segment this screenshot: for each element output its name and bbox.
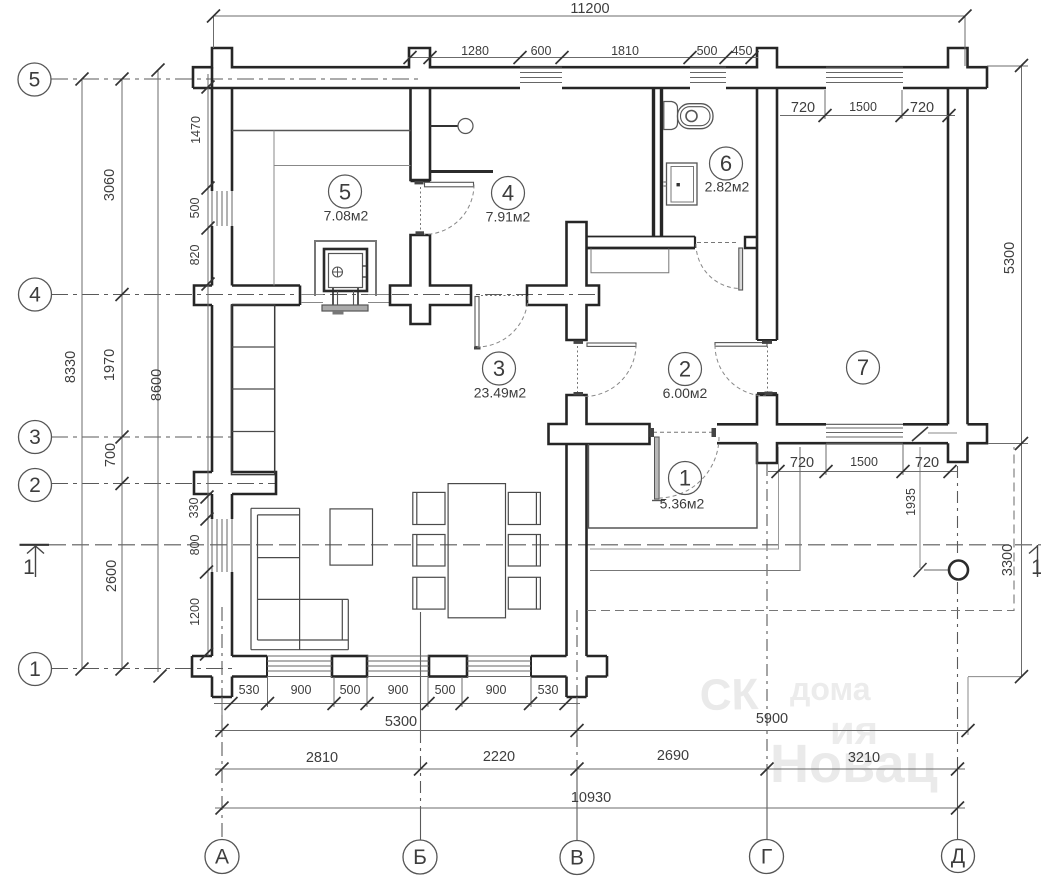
door D3 room 3 : leaf — [475, 297, 479, 347]
door D4 projection dotted — [577, 346, 579, 392]
svg-text:530: 530 — [538, 683, 559, 697]
column circle symbol — [949, 561, 968, 580]
log cross at axis B x axis 4 — [411, 88, 431, 180]
door D1 leaf — [425, 182, 474, 187]
wall axis V below axis 3 down to axis 1 — [565, 444, 568, 656]
axis circle 5 — [18, 63, 51, 96]
top wall band outline (axis 5) with log corners — [193, 48, 987, 88]
axis D vertical line — [957, 466, 959, 558]
svg-text:5: 5 — [29, 69, 41, 92]
svg-text:3300: 3300 — [1000, 544, 1016, 576]
svg-text:6.00м2: 6.00м2 — [663, 385, 708, 401]
svg-text:500: 500 — [188, 198, 202, 219]
svg-text:1280: 1280 — [461, 44, 489, 58]
stove opening jamb lines — [301, 294, 323, 296]
window 500 left wall — [211, 191, 213, 226]
axis 4 line — [51, 294, 598, 296]
door D6 swing arc — [659, 437, 719, 498]
svg-text:дома: дома — [790, 671, 871, 707]
svg-text:10930: 10930 — [571, 790, 611, 806]
toilet tank — [664, 102, 678, 130]
axis circle D — [942, 840, 975, 873]
log cross at axis V x axis 4 — [527, 222, 599, 340]
axis 2 line — [51, 483, 276, 485]
stove handle — [333, 267, 343, 277]
door D6 entrance : opening dashes — [653, 431, 712, 433]
door D3 swing arc — [477, 296, 528, 347]
svg-text:7.08м2: 7.08м2 — [324, 208, 369, 224]
door D4 swing arc — [584, 345, 636, 397]
hall bottom wall (axis 3) left segment with V-cross — [549, 395, 650, 444]
axis 4 interior wall segment from wall A to stove — [232, 284, 300, 287]
svg-text:720: 720 — [915, 455, 939, 471]
dining table — [448, 484, 505, 618]
wardrobe along left wall — [232, 305, 275, 475]
svg-text:5.36м2: 5.36м2 — [660, 496, 705, 512]
svg-text:720: 720 — [791, 100, 815, 116]
corner sofa — [250, 508, 252, 649]
partition under bathroom (room 6 bottom) — [587, 236, 696, 238]
svg-text:4: 4 — [29, 284, 41, 307]
door D2 bathroom : opening dashes — [697, 242, 738, 244]
side notches on firebox — [362, 265, 366, 267]
svg-text:2600: 2600 — [104, 560, 120, 592]
svg-text:330: 330 — [187, 498, 201, 519]
dim 10930 row — [215, 807, 965, 809]
door D2 leaf — [739, 248, 743, 290]
door D5 hall right : leaf — [715, 343, 767, 347]
svg-text:1200: 1200 — [188, 598, 202, 626]
svg-text:900: 900 — [388, 683, 409, 697]
axis circle 3 — [19, 421, 52, 454]
svg-text:5900: 5900 — [756, 711, 788, 727]
window 1500 top right wing — [826, 72, 903, 74]
svg-text:2.82м2: 2.82м2 — [705, 179, 750, 195]
axis circle G — [750, 840, 784, 874]
svg-text:7.91м2: 7.91м2 — [486, 209, 531, 225]
bottom wall block 1 — [332, 656, 367, 677]
svg-text:800: 800 — [188, 535, 202, 556]
axis 3 line — [51, 436, 232, 438]
stove hearth plate — [322, 305, 368, 311]
door D4 hall left : leaf — [587, 343, 636, 346]
downpipe dim 1935 line — [919, 447, 921, 568]
svg-text:1470: 1470 — [189, 116, 203, 144]
axis A vertical line — [221, 607, 223, 839]
svg-text:500: 500 — [697, 44, 718, 58]
dim 720/1500/720 top — [780, 115, 955, 117]
axis 1 line — [51, 668, 235, 670]
stove firebox — [324, 249, 367, 291]
room 5 circle — [329, 175, 362, 208]
sink — [667, 163, 698, 205]
section arrow left — [35, 545, 37, 577]
faint watermark — [699, 670, 937, 794]
svg-text:2220: 2220 — [483, 749, 515, 765]
svg-text:11200: 11200 — [570, 1, 609, 17]
porch step inner — [590, 447, 779, 549]
room 1 circle — [669, 462, 702, 495]
wall axis G (room6|room7) — [756, 88, 759, 340]
chair R3 — [508, 577, 540, 609]
section arrow right — [1037, 545, 1039, 577]
room 3 circle — [483, 352, 516, 385]
room labels — [324, 147, 880, 512]
svg-text:720: 720 — [910, 100, 934, 116]
door D1 jamb caps — [415, 181, 424, 184]
svg-text:6: 6 — [720, 151, 732, 176]
svg-text:820: 820 — [188, 245, 202, 266]
porch step outer — [590, 447, 800, 571]
bottom wall right arm to V wall — [531, 655, 567, 658]
room 1 tambour outline — [589, 444, 758, 528]
svg-text:3: 3 — [493, 356, 505, 381]
window 900 bottom a — [267, 655, 332, 657]
axis 4 crossing stub left of wall A — [194, 286, 212, 306]
axis B vertical line — [420, 612, 422, 731]
tick inside right wing bottom wall — [912, 427, 928, 441]
svg-text:530: 530 — [239, 683, 260, 697]
axis circle B — [403, 840, 437, 874]
chair L1 — [413, 492, 445, 524]
bottom dim row 530/900/500/900/500/900/530 — [214, 703, 580, 705]
svg-text:500: 500 — [340, 683, 361, 697]
svg-text:В: В — [570, 847, 584, 870]
axis circle 1 — [19, 653, 52, 686]
window 800 left wall — [211, 519, 213, 572]
svg-text:700: 700 — [103, 443, 119, 467]
left dim line 8600 — [157, 70, 159, 672]
svg-text:СК: СК — [699, 670, 759, 720]
door D1 rooms 5-4 : lintel — [430, 170, 493, 173]
svg-text:23.49м2: 23.49м2 — [474, 385, 527, 401]
svg-text:1500: 1500 — [849, 100, 877, 114]
dim 11200 line — [213, 15, 965, 17]
svg-text:1: 1 — [1031, 556, 1041, 579]
door D3 opening dashes — [481, 295, 523, 297]
terrace dashed outline — [587, 447, 1014, 611]
room 7 circle — [847, 351, 880, 384]
svg-text:5300: 5300 — [1002, 242, 1018, 274]
window 500 in top wall — [690, 72, 726, 74]
room 6 circle — [710, 147, 743, 180]
svg-text:3210: 3210 — [848, 750, 880, 766]
axis circle 4 — [19, 278, 52, 311]
chair R2 — [508, 535, 540, 567]
svg-text:720: 720 — [790, 455, 814, 471]
svg-text:5: 5 — [339, 180, 351, 205]
door D1 projection dotted — [420, 187, 422, 232]
stove outer shield — [315, 241, 376, 296]
window 1500 right wing bottom — [826, 427, 903, 429]
axis V vertical line — [576, 610, 578, 769]
svg-text:2690: 2690 — [657, 748, 689, 764]
svg-text:4: 4 — [502, 181, 514, 206]
svg-text:600: 600 — [531, 44, 552, 58]
axis circle V — [560, 841, 594, 875]
dim 720/1500/720 bottom wing — [768, 471, 957, 473]
room5 closet lines — [232, 130, 411, 132]
svg-text:Д: Д — [951, 845, 965, 868]
axis 5 line — [51, 78, 420, 80]
chair R1 — [508, 492, 540, 524]
svg-text:450: 450 — [732, 44, 753, 58]
svg-text:1: 1 — [23, 556, 35, 579]
right wing bottom wall (axis 3) with log crossings — [717, 395, 826, 424]
door D5 swing arc — [715, 345, 766, 396]
bottom wall (axis 1) left arm with A-cross — [192, 656, 212, 677]
window 900 bottom b — [367, 655, 429, 657]
door D1 swing arc — [424, 185, 474, 235]
svg-text:3: 3 — [29, 426, 41, 449]
coffee table — [330, 509, 373, 565]
wall axis D right exterior — [947, 88, 950, 424]
wall lamp symbol room 4 — [430, 125, 458, 127]
dim 5300/5900 row — [215, 730, 968, 732]
svg-text:2: 2 — [679, 357, 691, 382]
chair L3 — [413, 577, 445, 609]
bottom wall block 2 — [429, 656, 467, 677]
svg-text:Б: Б — [413, 846, 427, 869]
axis 2 crossing stub on wall A — [194, 472, 212, 494]
axis G vertical line — [766, 464, 768, 769]
dim row 1280/600/1810/500/450 — [408, 57, 758, 59]
stove flue legs — [332, 288, 334, 305]
door D2 swing arc — [696, 244, 741, 289]
svg-text:3060: 3060 — [102, 169, 118, 201]
dim 2810/2220/2690/3210 row — [215, 768, 965, 770]
svg-text:2810: 2810 — [306, 750, 338, 766]
toilet bowl — [678, 104, 714, 129]
right dim line 5300/3300 — [1021, 66, 1023, 677]
svg-text:1935: 1935 — [904, 488, 918, 516]
door D5 projection dotted — [767, 346, 769, 392]
extension to 5900 tick — [967, 677, 969, 735]
svg-text:500: 500 — [435, 683, 456, 697]
hall wardrobe box — [591, 249, 669, 273]
svg-text:8600: 8600 — [149, 369, 165, 401]
svg-text:900: 900 — [486, 683, 507, 697]
axis circle A — [205, 840, 239, 874]
left exterior wall (axis A) — [211, 67, 214, 191]
door D6 leaf thick — [655, 437, 660, 499]
svg-text:А: А — [215, 846, 229, 869]
svg-text:7: 7 — [857, 355, 869, 380]
bathroom door right stub — [745, 237, 757, 248]
svg-text:900: 900 — [291, 683, 312, 697]
svg-text:1: 1 — [679, 466, 691, 491]
svg-text:Г: Г — [761, 846, 772, 869]
svg-text:1: 1 — [29, 658, 41, 681]
left dim line 3060/1970/700/2600 — [121, 79, 123, 669]
room 4 circle — [492, 177, 525, 210]
left inner dim line 1470/500/820 ... — [207, 74, 209, 656]
svg-text:8330: 8330 — [63, 351, 79, 383]
axis circle 2 — [19, 469, 52, 502]
svg-text:2: 2 — [29, 474, 41, 497]
svg-text:1500: 1500 — [850, 455, 878, 469]
svg-text:1970: 1970 — [102, 349, 118, 381]
room 2 circle — [669, 353, 702, 386]
chair L2 — [413, 535, 445, 567]
window 900 bottom c — [467, 655, 531, 657]
left dim line 8330 — [81, 79, 83, 669]
window 600 in top wall — [520, 72, 562, 74]
svg-text:1810: 1810 — [611, 44, 639, 58]
bathroom partition wall (rooms 4|6) — [652, 88, 655, 237]
section line 1-1 — [20, 544, 50, 546]
svg-text:5300: 5300 — [385, 714, 417, 730]
top wall bottom edge segments (thick over wall, gaps at windows) — [193, 87, 520, 90]
